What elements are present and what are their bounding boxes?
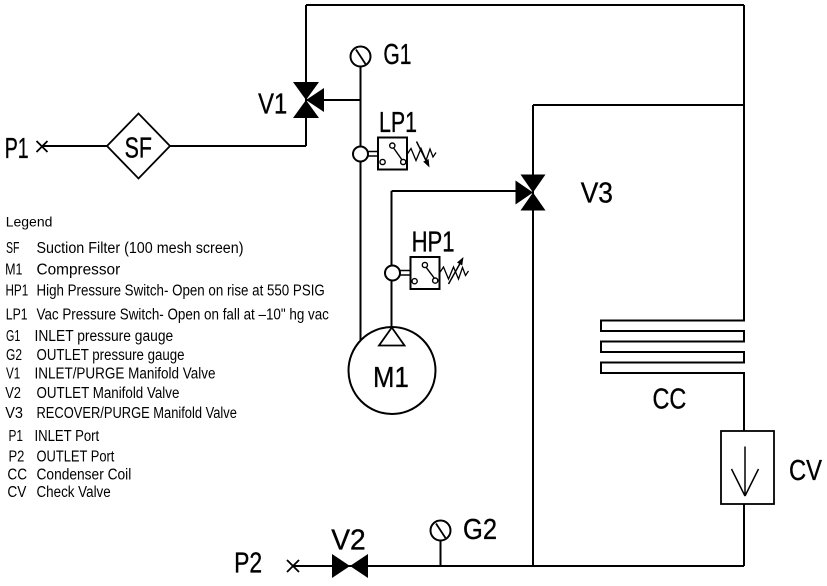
svg-text:Compressor: Compressor <box>37 262 121 279</box>
svg-text:LP1: LP1 <box>6 307 28 324</box>
svg-text:G1: G1 <box>6 328 20 345</box>
svg-text:LP1: LP1 <box>379 107 417 139</box>
svg-text:CC: CC <box>653 384 687 416</box>
wire G1 stem vertical down to M1 <box>360 67 362 341</box>
wire V1 to G1 stem <box>306 99 361 101</box>
wire bottom horizontal <box>293 565 744 567</box>
svg-text:V1: V1 <box>258 89 287 121</box>
svg-text:OUTLET Port: OUTLET Port <box>37 449 115 466</box>
wire top horizontal <box>306 4 744 6</box>
svg-text:CV: CV <box>7 484 27 501</box>
svg-text:Suction Filter (100 mesh scree: Suction Filter (100 mesh screen) <box>37 240 244 257</box>
svg-text:V1: V1 <box>6 366 20 383</box>
wire G2 stem <box>440 541 442 566</box>
wire HP1 branch horizontal <box>392 190 522 192</box>
svg-text:CC: CC <box>7 466 27 483</box>
svg-text:P1: P1 <box>9 428 24 445</box>
wire right vertical with condenser serpentine <box>601 5 744 566</box>
wire V3 top horizontal <box>533 104 744 106</box>
wire left vertical from top to P1 line <box>305 5 307 146</box>
svg-text:HP1: HP1 <box>6 283 29 300</box>
filter SF diamond <box>107 114 170 179</box>
svg-text:SF: SF <box>125 133 152 165</box>
svg-text:HP1: HP1 <box>412 226 455 258</box>
svg-text:V3: V3 <box>5 405 23 422</box>
valve V3 (recover/purge manifold valve) <box>516 175 546 211</box>
svg-text:G2: G2 <box>6 347 22 364</box>
svg-text:V2: V2 <box>331 525 366 557</box>
svg-text:G1: G1 <box>383 39 411 71</box>
wire HP1 branch vertical to M1 <box>391 191 393 330</box>
svg-text:INLET Port: INLET Port <box>35 428 100 445</box>
wire V3 vertical <box>532 105 534 566</box>
gauge G2 <box>431 521 451 541</box>
svg-text:V3: V3 <box>581 178 613 210</box>
switch HP1 <box>385 257 469 289</box>
port P1 x-symbol <box>37 141 48 152</box>
svg-text:P1: P1 <box>5 133 29 165</box>
gauge G1 <box>351 47 371 67</box>
svg-text:OUTLET Manifold Valve: OUTLET Manifold Valve <box>37 385 180 402</box>
valve V1 (3-way manifold valve) <box>293 82 324 118</box>
svg-text:P2: P2 <box>234 547 262 579</box>
wire P1 horizontal <box>42 145 306 147</box>
svg-text:SF: SF <box>6 240 20 257</box>
switch LP1 <box>353 138 436 170</box>
svg-text:INLET pressure gauge: INLET pressure gauge <box>35 328 174 345</box>
svg-text:Condenser Coil: Condenser Coil <box>37 466 132 483</box>
svg-text:Legend: Legend <box>6 214 53 230</box>
svg-text:G2: G2 <box>463 514 497 546</box>
valve V2 (outlet manifold valve) <box>332 554 368 578</box>
svg-text:INLET/PURGE Manifold Valve: INLET/PURGE Manifold Valve <box>35 366 216 383</box>
svg-text:CV: CV <box>789 455 823 487</box>
svg-text:P2: P2 <box>9 449 25 466</box>
svg-text:Check Valve: Check Valve <box>37 484 111 501</box>
port P2 x-symbol <box>287 560 299 572</box>
svg-text:V2: V2 <box>5 385 21 402</box>
svg-text:RECOVER/PURGE Manifold Valve: RECOVER/PURGE Manifold Valve <box>37 405 237 422</box>
compressor M1 <box>349 327 436 414</box>
svg-text:Vac Pressure Switch- Open on f: Vac Pressure Switch- Open on fall at –10… <box>37 307 330 324</box>
svg-text:High Pressure Switch- Open on: High Pressure Switch- Open on rise at 55… <box>37 283 325 300</box>
check valve CV <box>721 431 774 504</box>
svg-text:M1: M1 <box>5 262 22 279</box>
svg-text:M1: M1 <box>373 362 409 394</box>
svg-text:OUTLET pressure gauge: OUTLET pressure gauge <box>37 347 185 364</box>
